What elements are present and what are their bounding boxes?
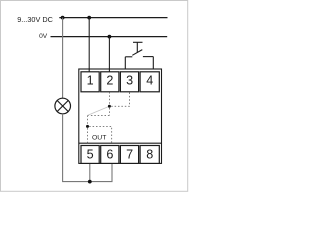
node B <box>86 125 89 128</box>
wire 0V to terminal2 <box>108 37 110 72</box>
module bottom row separator <box>79 142 162 144</box>
terminal 3 <box>120 72 138 92</box>
node terminal5 bus junction <box>88 180 92 184</box>
internal dashed: node B down to terminal5 <box>87 128 89 143</box>
wire +V supply line <box>59 17 167 19</box>
terminal 5 <box>81 146 99 164</box>
internal dashed: terminal2 to node A <box>108 92 110 105</box>
node terminal2 tap on 0V <box>108 35 112 39</box>
terminal 7 <box>120 146 138 164</box>
internal dashed: node B to OUT right side <box>89 126 112 143</box>
node lamp tap on +V <box>61 16 65 20</box>
node A <box>108 105 111 108</box>
svg-text:1: 1 <box>87 74 94 88</box>
relay blade contact <box>88 106 110 115</box>
internal dashed: contact seat across <box>88 114 110 116</box>
wire 0V supply line <box>51 36 168 38</box>
svg-text:9...30V DC: 9...30V DC <box>17 15 53 24</box>
wire +V to terminal1 <box>88 18 90 72</box>
wire from +V to lamp <box>62 18 64 99</box>
internal dashed: node A down <box>108 108 110 115</box>
internal dashed: seat down to node B <box>87 115 89 124</box>
svg-text:6: 6 <box>106 148 113 162</box>
terminal 4 <box>140 72 159 92</box>
lamp L1 <box>55 98 71 114</box>
node terminal1 tap on +V <box>87 16 91 20</box>
module outline <box>79 69 162 163</box>
pushbutton S1 <box>125 42 153 69</box>
wire lamp to bottom bus <box>63 114 112 182</box>
terminal 8 <box>140 146 159 164</box>
svg-text:2: 2 <box>106 74 113 88</box>
svg-text:5: 5 <box>87 148 94 162</box>
wire terminal5 to bus <box>89 164 91 182</box>
svg-text:0V: 0V <box>39 33 48 40</box>
svg-text:4: 4 <box>146 74 153 88</box>
svg-text:8: 8 <box>146 148 153 162</box>
terminal 6 <box>101 146 119 164</box>
terminal 2 <box>101 72 119 92</box>
svg-text:7: 7 <box>126 148 133 162</box>
frame border <box>1 1 188 192</box>
svg-text:OUT: OUT <box>92 135 106 142</box>
internal dashed: node A to terminal3 <box>111 92 129 106</box>
terminal 1 <box>81 72 99 92</box>
svg-text:3: 3 <box>126 74 133 88</box>
